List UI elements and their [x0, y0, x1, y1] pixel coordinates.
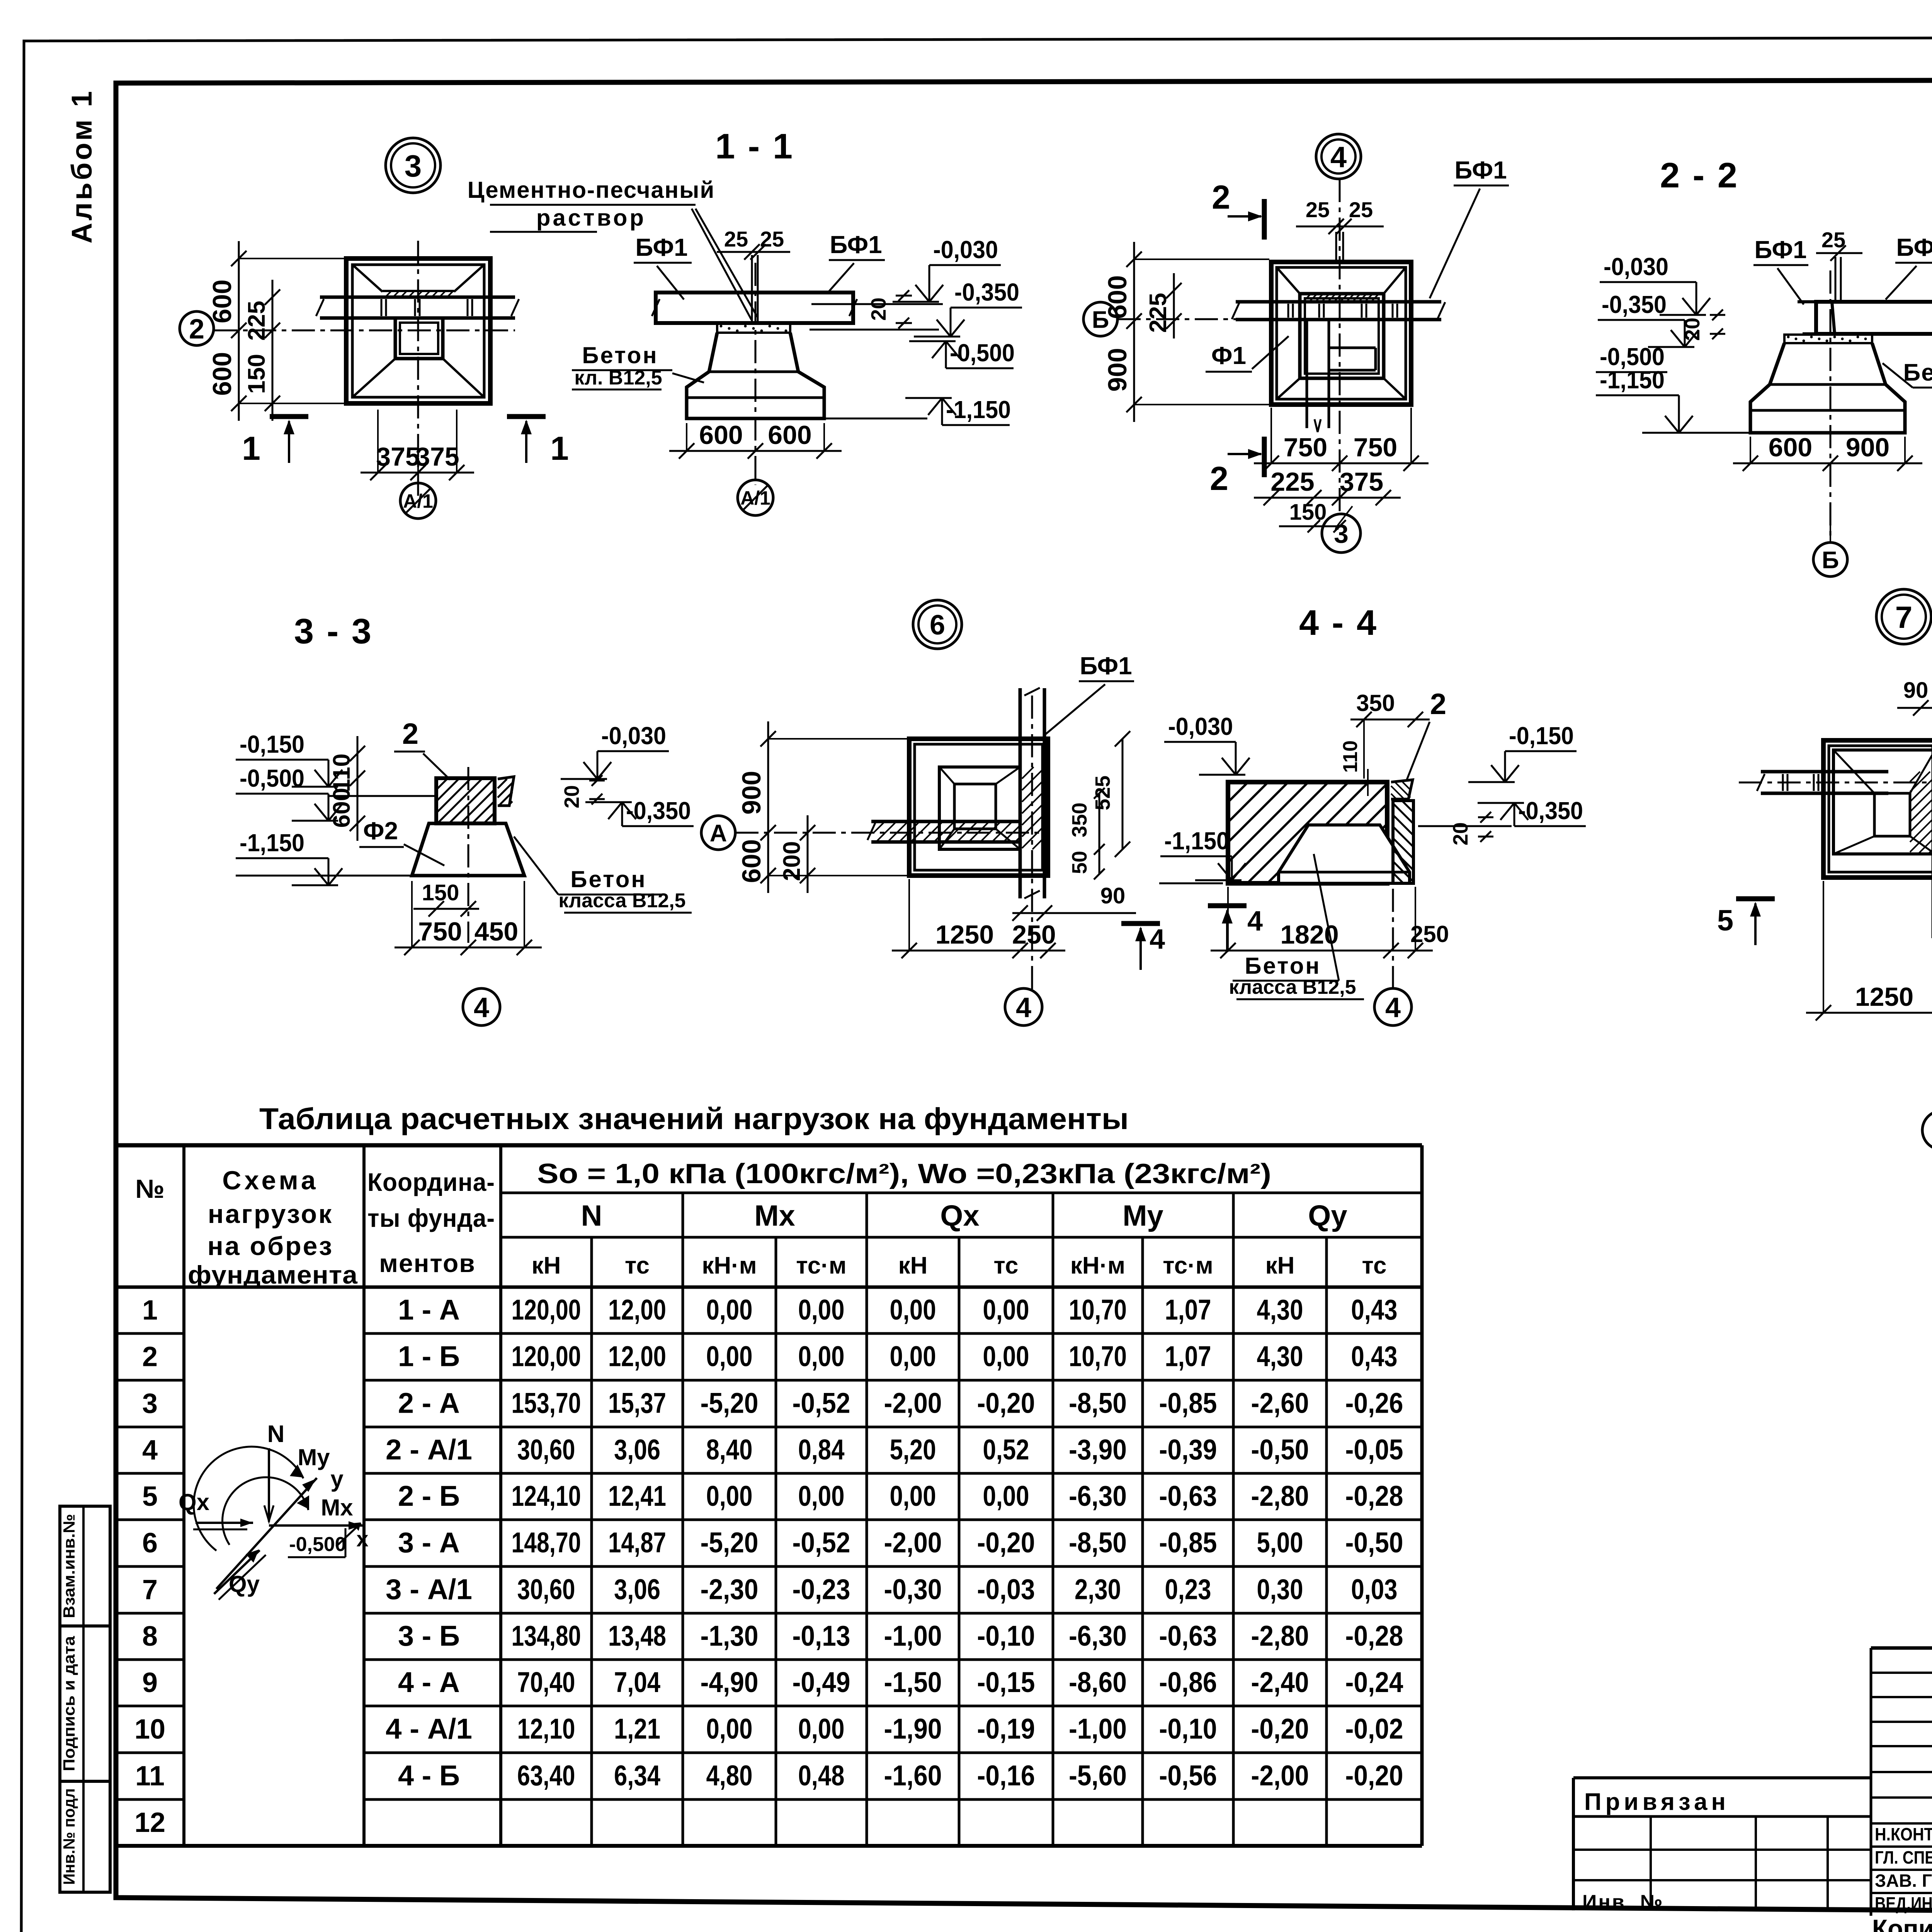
svg-text:-2,00: -2,00	[1251, 1760, 1309, 1792]
4-4 dim 1820 250	[1211, 950, 1433, 952]
svg-text:А/1: А/1	[403, 490, 433, 512]
svg-text:-0,16: -0,16	[977, 1760, 1035, 1792]
svg-text:5: 5	[1717, 904, 1733, 937]
svg-text:0,00: 0,00	[706, 1340, 753, 1372]
svg-text:-0,20: -0,20	[977, 1527, 1035, 1559]
svg-text:Инв.№ подл: Инв.№ подл	[60, 1788, 78, 1885]
3-3 axis	[468, 767, 469, 943]
svg-text:-0,28: -0,28	[1345, 1620, 1403, 1652]
svg-text:25: 25	[1349, 197, 1373, 222]
svg-text:110: 110	[1339, 740, 1362, 773]
svg-text:-0,86: -0,86	[1159, 1666, 1217, 1698]
svg-text:-0,03: -0,03	[977, 1573, 1035, 1605]
svg-text:6: 6	[142, 1528, 158, 1559]
schema Qy arrow	[214, 1550, 260, 1594]
section mark 1 left	[270, 414, 308, 419]
svg-text:-0,500: -0,500	[240, 764, 304, 792]
svg-text:Ф2: Ф2	[363, 817, 398, 845]
svg-text:-2,30: -2,30	[701, 1573, 759, 1605]
svg-text:0,48: 0,48	[798, 1760, 845, 1792]
svg-text:-0,500: -0,500	[950, 339, 1015, 367]
svg-text:0,00: 0,00	[890, 1480, 936, 1512]
svg-text:600: 600	[699, 420, 743, 450]
svg-text:-4,90: -4,90	[701, 1666, 759, 1698]
axis circle 4 node6	[1005, 988, 1042, 1026]
svg-text:0,00: 0,00	[798, 1294, 845, 1326]
svg-text:А: А	[710, 820, 727, 847]
svg-text:-0,350: -0,350	[954, 278, 1019, 306]
node4 axes	[1339, 179, 1341, 514]
node 3 axis circle bottom	[1322, 514, 1361, 553]
svg-text:1250: 1250	[935, 920, 994, 949]
svg-text:Привязан: Привязан	[1584, 1789, 1730, 1815]
table units line	[116, 1286, 1422, 1289]
node4 dim 225	[1173, 273, 1175, 338]
svg-text:So = 1,0 кПа (100кгс/м²), Wo =: So = 1,0 кПа (100кгс/м²), Wo =0,23кПа (2…	[537, 1158, 1271, 1189]
svg-text:15,37: 15,37	[608, 1387, 666, 1419]
svg-text:0,00: 0,00	[890, 1340, 936, 1372]
grout gap lines	[751, 255, 753, 323]
svg-text:225: 225	[243, 301, 270, 340]
svg-text:5,20: 5,20	[890, 1434, 936, 1466]
svg-text:-0,50: -0,50	[1251, 1434, 1309, 1466]
3-3 wedge piece	[498, 777, 514, 806]
svg-text:-0,50: -0,50	[1345, 1527, 1403, 1559]
svg-text:110: 110	[328, 753, 355, 792]
svg-text:750: 750	[418, 917, 462, 946]
svg-text:-0,150: -0,150	[1509, 722, 1574, 750]
svg-text:2: 2	[1212, 179, 1230, 216]
svg-text:3,06: 3,06	[614, 1573, 660, 1605]
svg-text:-1,150: -1,150	[1164, 827, 1229, 855]
svg-text:25: 25	[724, 227, 748, 251]
svg-text:N: N	[267, 1421, 285, 1447]
svg-text:600: 600	[207, 352, 237, 396]
svg-text:-2,80: -2,80	[1251, 1480, 1309, 1512]
node4 wall panel below	[1306, 320, 1308, 428]
svg-text:ВЕД.ИНЖ: ВЕД.ИНЖ	[1875, 1893, 1932, 1913]
node3 dim 225 150	[272, 280, 274, 421]
node4 dim 750 750	[1254, 463, 1429, 464]
left margin boxes	[60, 1506, 110, 1626]
node3 pocket square	[395, 318, 443, 359]
table vertical lines	[182, 1145, 185, 1846]
svg-text:450: 450	[474, 917, 518, 946]
node3 axis horizontal	[214, 330, 515, 332]
section mark 2 top	[1262, 199, 1267, 240]
svg-text:-0,13: -0,13	[793, 1620, 850, 1652]
schema Mx axis	[269, 1524, 363, 1527]
mortar joint dotted	[717, 324, 790, 333]
svg-text:-0,02: -0,02	[1345, 1713, 1403, 1745]
svg-text:153,70: 153,70	[512, 1387, 581, 1419]
svg-text:-0,23: -0,23	[793, 1573, 850, 1605]
svg-text:12,10: 12,10	[517, 1713, 575, 1745]
svg-text:-8,60: -8,60	[1069, 1666, 1127, 1698]
svg-text:4 - Б: 4 - Б	[398, 1760, 460, 1792]
svg-text:-2,00: -2,00	[884, 1527, 942, 1559]
svg-text:-8,50: -8,50	[1069, 1527, 1127, 1559]
node6 right dims 525 350 50	[1122, 739, 1124, 849]
svg-text:-8,50: -8,50	[1069, 1387, 1127, 1419]
svg-text:525: 525	[1091, 776, 1114, 810]
svg-text:4: 4	[1016, 992, 1031, 1023]
svg-text:20: 20	[1681, 318, 1704, 341]
svg-text:ты фунда-: ты фунда-	[367, 1204, 495, 1232]
axis circle 2	[180, 311, 214, 345]
table outer top	[116, 1143, 1422, 1148]
svg-text:класса В12,5: класса В12,5	[1229, 976, 1356, 998]
svg-text:13,48: 13,48	[608, 1620, 666, 1652]
svg-text:Ф1: Ф1	[1211, 342, 1246, 369]
node7 vertical beam	[1932, 746, 1932, 938]
svg-text:120,00: 120,00	[512, 1294, 581, 1326]
svg-text:90: 90	[1903, 678, 1929, 703]
svg-text:-0,150: -0,150	[240, 730, 304, 758]
svg-text:-0,63: -0,63	[1159, 1620, 1217, 1652]
svg-text:350: 350	[1356, 690, 1395, 716]
svg-text:1: 1	[242, 430, 260, 467]
svg-text:2 - 2: 2 - 2	[1660, 156, 1739, 195]
schema x tick	[336, 1523, 361, 1546]
svg-text:600: 600	[1769, 433, 1812, 462]
axis circle A/1	[400, 483, 436, 519]
axis circle B bottom	[1813, 543, 1847, 577]
svg-text:900: 900	[1846, 433, 1889, 462]
svg-text:-0,030: -0,030	[933, 236, 998, 264]
svg-text:0,00: 0,00	[706, 1294, 753, 1326]
svg-text:-5,20: -5,20	[701, 1527, 759, 1559]
svg-text:Мх: Мх	[321, 1495, 353, 1520]
svg-text:63,40: 63,40	[517, 1760, 575, 1792]
svg-text:тс: тс	[1362, 1252, 1386, 1279]
svg-text:3: 3	[142, 1388, 158, 1419]
axis circle B	[1083, 302, 1117, 336]
node 7 circle	[1876, 589, 1931, 644]
svg-text:250: 250	[1012, 920, 1056, 949]
axis circle 4 node7	[1922, 1111, 1932, 1150]
section mark 2 bottom	[1262, 437, 1267, 477]
svg-text:ментов: ментов	[379, 1249, 476, 1277]
svg-text:4,30: 4,30	[1257, 1340, 1303, 1372]
svg-text:900: 900	[737, 771, 766, 815]
svg-text:Инв. №: Инв. №	[1582, 1891, 1664, 1913]
svg-text:Qу: Qу	[1308, 1199, 1347, 1232]
2-2 dim 600 900	[1733, 463, 1922, 464]
svg-text:70,40: 70,40	[517, 1666, 575, 1698]
svg-text:кН·м: кН·м	[702, 1252, 757, 1279]
table row lines	[116, 1332, 184, 1335]
svg-text:нагрузок: нагрузок	[208, 1199, 333, 1229]
node3 slope diagonals	[352, 265, 383, 292]
svg-text:2,30: 2,30	[1075, 1573, 1121, 1605]
svg-text:900: 900	[1103, 348, 1132, 391]
node6 horizontal beam hatched	[871, 820, 1020, 823]
3-3 trapezoid base	[412, 823, 524, 876]
node4 dim 225 375	[1254, 497, 1401, 499]
svg-text:класса В12,5: класса В12,5	[558, 889, 685, 912]
svg-text:4: 4	[1150, 924, 1165, 955]
svg-text:6: 6	[930, 610, 945, 641]
svg-text:10: 10	[134, 1714, 165, 1745]
node 6 circle	[913, 600, 962, 649]
svg-text:0,00: 0,00	[798, 1480, 845, 1512]
svg-text:-3,90: -3,90	[1069, 1434, 1127, 1466]
svg-text:-0,500: -0,500	[289, 1533, 346, 1556]
svg-text:1: 1	[550, 430, 569, 467]
svg-text:Бетон: Бетон	[1245, 953, 1321, 979]
svg-text:-1,00: -1,00	[1069, 1713, 1127, 1745]
svg-text:-0,350: -0,350	[1518, 797, 1583, 825]
svg-text:124,10: 124,10	[512, 1480, 581, 1512]
svg-text:5: 5	[142, 1481, 158, 1512]
svg-text:225: 225	[1145, 293, 1172, 333]
svg-text:0,43: 0,43	[1351, 1294, 1398, 1326]
svg-text:1: 1	[142, 1295, 158, 1326]
svg-text:фундамента: фундамента	[188, 1260, 358, 1289]
svg-text:350: 350	[1068, 803, 1091, 837]
svg-text:4,80: 4,80	[706, 1760, 753, 1792]
svg-text:Цементно-песчаный: Цементно-песчаный	[468, 177, 715, 203]
svg-text:20: 20	[560, 785, 583, 808]
svg-text:600: 600	[1103, 275, 1132, 319]
svg-text:3: 3	[1334, 519, 1349, 548]
svg-text:4 - А/1: 4 - А/1	[386, 1713, 472, 1745]
svg-text:Взам.инв.№: Взам.инв.№	[60, 1514, 78, 1618]
svg-text:-1,50: -1,50	[884, 1666, 942, 1698]
svg-text:20: 20	[867, 298, 890, 321]
svg-text:-0,19: -0,19	[977, 1713, 1035, 1745]
3-3 dim 110 600	[357, 736, 359, 841]
svg-text:3 - А/1: 3 - А/1	[386, 1573, 472, 1605]
svg-text:-0,49: -0,49	[793, 1666, 850, 1698]
svg-text:3 - 3: 3 - 3	[294, 612, 373, 651]
svg-text:600: 600	[768, 420, 811, 450]
svg-text:-2,00: -2,00	[884, 1387, 942, 1419]
svg-text:-0,030: -0,030	[601, 722, 666, 750]
svg-text:4: 4	[474, 992, 489, 1023]
svg-text:-0,85: -0,85	[1159, 1527, 1217, 1559]
svg-text:2 - А/1: 2 - А/1	[386, 1434, 472, 1466]
svg-text:0,23: 0,23	[1165, 1573, 1211, 1605]
svg-text:х: х	[356, 1527, 368, 1551]
svg-text:-0,52: -0,52	[793, 1387, 850, 1419]
node7 nested squares	[1833, 750, 1932, 854]
svg-text:25: 25	[1306, 197, 1330, 222]
foundation bell 1-1	[687, 333, 824, 418]
svg-text:375: 375	[376, 442, 420, 471]
node4 dim 600 900	[1133, 242, 1135, 422]
svg-text:-1,150: -1,150	[1600, 366, 1665, 394]
svg-text:0,30: 0,30	[1257, 1573, 1303, 1605]
svg-text:7,04: 7,04	[614, 1666, 660, 1698]
svg-text:4: 4	[1385, 992, 1401, 1023]
section mark 4 4-4	[1208, 903, 1247, 908]
svg-text:1 - А: 1 - А	[398, 1294, 460, 1326]
svg-text:ЗАВ. ГР.: ЗАВ. ГР.	[1875, 1871, 1932, 1891]
svg-text:тс·м: тс·м	[1163, 1252, 1213, 1279]
node7 hatch strips	[1910, 772, 1920, 782]
svg-text:1 - Б: 1 - Б	[398, 1340, 460, 1372]
svg-text:-0,20: -0,20	[1345, 1760, 1403, 1792]
svg-text:-5,60: -5,60	[1069, 1760, 1127, 1792]
node6 plan squares	[909, 739, 1048, 876]
svg-text:-0,39: -0,39	[1159, 1434, 1217, 1466]
svg-text:ГЛ. СПЕЦ: ГЛ. СПЕЦ	[1875, 1847, 1932, 1867]
svg-text:4: 4	[142, 1435, 158, 1466]
node3 dim 600x600	[238, 241, 240, 421]
svg-text:30,60: 30,60	[517, 1434, 575, 1466]
svg-text:7: 7	[142, 1575, 158, 1605]
svg-text:0,00: 0,00	[983, 1340, 1029, 1372]
svg-text:Схема: Схема	[222, 1166, 318, 1195]
svg-text:750: 750	[1284, 433, 1327, 462]
svg-text:№: №	[135, 1174, 165, 1204]
svg-text:11: 11	[135, 1761, 165, 1792]
node3 dim 375 375	[361, 472, 474, 474]
svg-text:90: 90	[1100, 883, 1126, 908]
svg-text:375: 375	[1340, 467, 1383, 497]
svg-text:0,00: 0,00	[798, 1340, 845, 1372]
svg-text:-0,28: -0,28	[1345, 1480, 1403, 1512]
section mark 5 left	[1736, 896, 1775, 901]
svg-text:-0,350: -0,350	[1602, 291, 1667, 318]
node6 vertical beam	[1019, 688, 1022, 898]
svg-text:-0,10: -0,10	[977, 1620, 1035, 1652]
privyazan block	[1573, 1776, 1871, 1779]
svg-text:12: 12	[134, 1807, 165, 1838]
svg-text:0,00: 0,00	[798, 1713, 845, 1745]
svg-text:Н.КОНТР.: Н.КОНТР.	[1875, 1824, 1932, 1844]
node4 column lines top	[1335, 232, 1337, 263]
4-4 hatched block	[1228, 782, 1387, 883]
svg-text:-2,60: -2,60	[1251, 1387, 1309, 1419]
node3 plan outer square	[346, 259, 490, 403]
svg-text:кН: кН	[1265, 1252, 1295, 1279]
node6 axes	[735, 832, 1048, 834]
svg-text:-1,90: -1,90	[884, 1713, 942, 1745]
node4 pocket	[1300, 294, 1384, 378]
svg-text:-1,150: -1,150	[240, 829, 304, 857]
svg-text:14,87: 14,87	[608, 1527, 666, 1559]
schema axes diagram	[268, 1448, 270, 1522]
svg-text:120,00: 120,00	[512, 1340, 581, 1372]
svg-text:600: 600	[207, 279, 237, 323]
svg-text:БФ1: БФ1	[1080, 652, 1132, 680]
svg-text:225: 225	[1270, 467, 1314, 497]
elevation chain lines	[811, 303, 943, 305]
svg-text:-0,030: -0,030	[1168, 713, 1233, 740]
svg-text:-1,30: -1,30	[701, 1620, 759, 1652]
svg-text:600: 600	[737, 839, 766, 883]
schema arc inner	[223, 1477, 308, 1545]
svg-text:0,00: 0,00	[983, 1480, 1029, 1512]
4-4 right strip	[1393, 801, 1413, 883]
svg-text:0,03: 0,03	[1351, 1573, 1398, 1605]
table bottom line	[116, 1844, 1422, 1848]
node7 dim 1250 250	[1806, 1012, 1932, 1014]
node6 dim 1250 250	[892, 950, 1065, 952]
node3 beam BF1	[320, 296, 515, 299]
svg-text:0,00: 0,00	[890, 1294, 936, 1326]
svg-text:-0,30: -0,30	[884, 1573, 942, 1605]
svg-text:-2,40: -2,40	[1251, 1666, 1309, 1698]
svg-text:у: у	[330, 1466, 344, 1492]
title block small grid	[1871, 1646, 1932, 1650]
svg-text:Копировал Завьялова: Копировал Завьялова	[1872, 1914, 1932, 1932]
node 4 circle	[1316, 134, 1361, 179]
section mark 4 node6	[1121, 921, 1160, 926]
svg-text:9: 9	[142, 1667, 158, 1698]
svg-text:-2,80: -2,80	[1251, 1620, 1309, 1652]
svg-text:-0,24: -0,24	[1345, 1666, 1403, 1698]
svg-text:2: 2	[1430, 688, 1446, 721]
node6 dim 900 600	[767, 721, 769, 893]
svg-text:148,70: 148,70	[512, 1527, 581, 1559]
svg-text:-0,56: -0,56	[1159, 1760, 1217, 1792]
table S0 header line	[501, 1192, 1422, 1194]
section mark 1 right	[507, 414, 546, 419]
svg-text:30,60: 30,60	[517, 1573, 575, 1605]
svg-text:4: 4	[1247, 906, 1263, 937]
2-2 wedge piece	[1798, 302, 1835, 334]
2-2 beam slab	[1816, 302, 1932, 334]
svg-text:-0,63: -0,63	[1159, 1480, 1217, 1512]
node4 plan squares	[1271, 262, 1411, 405]
svg-text:Qх: Qх	[940, 1199, 979, 1232]
svg-text:-0,05: -0,05	[1345, 1434, 1403, 1466]
svg-text:БФ1: БФ1	[830, 231, 882, 259]
svg-text:-1,150: -1,150	[946, 396, 1011, 423]
svg-text:6,34: 6,34	[614, 1760, 660, 1792]
svg-text:0,00: 0,00	[706, 1713, 753, 1745]
node3 axis vertical	[417, 241, 419, 499]
svg-text:Альбом 1: Альбом 1	[66, 89, 98, 243]
svg-text:Бетон класса В12,5: Бетон класса В12,5	[1903, 359, 1932, 386]
svg-text:N: N	[581, 1199, 602, 1232]
svg-text:-6,30: -6,30	[1069, 1620, 1127, 1652]
svg-text:8,40: 8,40	[706, 1434, 753, 1466]
2-2 grout lines	[1835, 257, 1837, 302]
svg-text:-5,20: -5,20	[701, 1387, 759, 1419]
svg-text:раствор: раствор	[536, 205, 646, 231]
svg-text:4 - А: 4 - А	[398, 1666, 460, 1698]
svg-text:375: 375	[415, 442, 459, 471]
svg-text:Б: Б	[1822, 547, 1839, 573]
svg-text:БФ1: БФ1	[1754, 236, 1806, 264]
schema arc outer	[194, 1447, 303, 1551]
svg-text:600: 600	[328, 788, 355, 828]
svg-text:1 - 1: 1 - 1	[715, 127, 794, 166]
svg-text:-0,15: -0,15	[977, 1666, 1035, 1698]
svg-text:2: 2	[402, 718, 418, 750]
svg-text:-1,00: -1,00	[884, 1620, 942, 1652]
dim 600 600 bottom 1-1	[669, 450, 842, 452]
svg-text:200: 200	[779, 841, 805, 881]
node4 diagonals	[1277, 267, 1300, 294]
svg-text:тс: тс	[993, 1252, 1018, 1279]
svg-text:0,43: 0,43	[1351, 1340, 1398, 1372]
svg-text:0,52: 0,52	[983, 1434, 1029, 1466]
svg-text:7: 7	[1895, 600, 1913, 634]
svg-text:-6,30: -6,30	[1069, 1480, 1127, 1512]
svg-text:тс: тс	[625, 1252, 650, 1279]
svg-text:150: 150	[1289, 500, 1327, 525]
svg-text:БФ1: БФ1	[635, 233, 687, 261]
svg-text:-0,26: -0,26	[1345, 1387, 1403, 1419]
node6 dim 200	[807, 815, 809, 893]
svg-text:-0,20: -0,20	[1251, 1713, 1309, 1745]
